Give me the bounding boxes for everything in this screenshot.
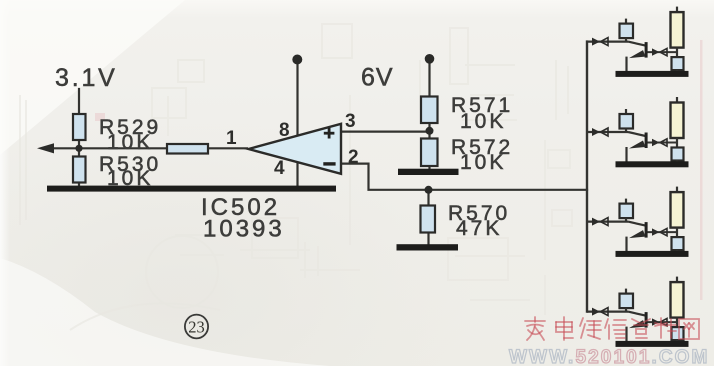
svg-text:10K: 10K [107,167,153,190]
svg-text:3: 3 [345,111,356,132]
svg-text:2: 2 [348,147,359,168]
svg-text:8: 8 [279,120,290,141]
svg-text:10393: 10393 [203,216,285,243]
svg-text:10K: 10K [460,110,506,133]
svg-text:23: 23 [188,318,205,337]
svg-text:10K: 10K [107,131,153,154]
svg-text:WWW.520101.COM: WWW.520101.COM [509,347,709,366]
svg-text:6V: 6V [361,64,394,92]
svg-text:47K: 47K [456,217,502,240]
svg-text:10K: 10K [460,151,506,174]
svg-text:4: 4 [274,158,285,179]
svg-text:3.1V: 3.1V [55,64,118,92]
svg-text:1: 1 [226,128,237,149]
